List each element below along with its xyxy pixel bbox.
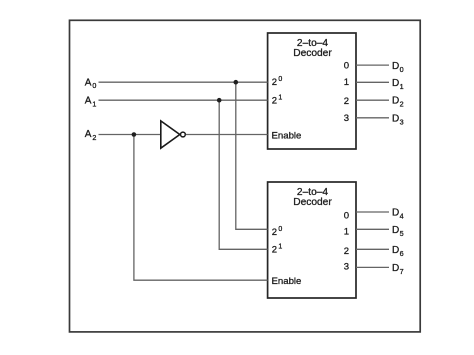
wire U2 pin2 to D6	[356, 248, 389, 250]
wire A0 branch to U2 2^0	[236, 82, 268, 229]
svg-text:2: 2	[344, 246, 349, 257]
svg-text:2: 2	[92, 133, 96, 142]
wire inverter output to U1 Enable	[186, 134, 268, 136]
svg-text:1: 1	[278, 244, 282, 251]
svg-text:0: 0	[92, 81, 96, 90]
svg-text:0: 0	[400, 65, 404, 74]
U2 pin label 2^0	[272, 226, 283, 238]
svg-text:D: D	[392, 96, 399, 107]
svg-text:2: 2	[272, 77, 277, 88]
wire A1 to U1 2^1	[99, 99, 268, 101]
wire U1 pin3 to D3	[356, 117, 389, 119]
svg-text:2: 2	[400, 100, 404, 109]
input label A1	[85, 95, 97, 108]
inverter gate	[161, 121, 186, 148]
output label D6	[392, 245, 404, 258]
U1 pin label 2^1	[272, 94, 283, 106]
svg-text:0: 0	[278, 76, 282, 83]
output label D3	[392, 113, 404, 126]
svg-text:Enable: Enable	[272, 276, 302, 287]
U1 pin label 2^0	[272, 76, 283, 88]
decoder U1 (top 2-to-4 decoder)	[268, 33, 356, 149]
svg-text:3: 3	[344, 113, 349, 124]
svg-text:0: 0	[344, 211, 349, 222]
wire A2 branch to U2 Enable	[134, 135, 268, 281]
svg-text:A: A	[85, 129, 92, 140]
U1 output pin numbers 0-3	[344, 61, 349, 125]
svg-text:3: 3	[344, 261, 349, 272]
svg-text:2: 2	[272, 95, 277, 106]
svg-text:D: D	[392, 225, 399, 236]
svg-text:3: 3	[400, 117, 404, 126]
svg-text:D: D	[392, 61, 399, 72]
svg-text:1: 1	[344, 227, 349, 238]
svg-text:Decoder: Decoder	[293, 197, 332, 208]
junction A0	[234, 80, 239, 85]
svg-text:D: D	[392, 245, 399, 256]
svg-text:4: 4	[400, 212, 404, 221]
output label D7	[392, 263, 404, 276]
svg-text:D: D	[392, 208, 399, 219]
svg-text:A: A	[85, 77, 92, 88]
U2 pin label 2^1	[272, 244, 283, 256]
svg-text:A: A	[85, 95, 92, 106]
svg-text:6: 6	[400, 249, 404, 258]
wire A1 branch to U2 2^1	[219, 100, 267, 249]
wire U1 pin1 to D1	[356, 81, 389, 83]
svg-text:1: 1	[344, 77, 349, 88]
output label D4	[392, 208, 404, 221]
junction A2	[132, 132, 137, 137]
svg-text:2: 2	[272, 227, 277, 238]
wire A0 to U1 2^0	[99, 81, 268, 83]
wire U2 pin3 to D7	[356, 266, 389, 268]
U2 output pin numbers 0-3	[344, 211, 349, 273]
svg-text:2: 2	[344, 96, 349, 107]
svg-text:1: 1	[92, 99, 96, 108]
svg-text:0: 0	[278, 226, 282, 233]
svg-text:0: 0	[344, 61, 349, 72]
wire U2 pin1 to D5	[356, 228, 389, 230]
svg-text:7: 7	[400, 267, 404, 276]
output label D2	[392, 96, 404, 109]
svg-text:1: 1	[278, 94, 282, 101]
svg-text:D: D	[392, 113, 399, 124]
svg-text:1: 1	[400, 82, 404, 91]
decoder U2 (bottom 2-to-4 decoder)	[268, 182, 356, 298]
wire U1 pin2 to D2	[356, 99, 389, 101]
input label A0	[85, 77, 97, 90]
U2 title	[293, 187, 332, 208]
svg-text:2: 2	[272, 245, 277, 256]
svg-text:Enable: Enable	[272, 131, 302, 142]
output label D0	[392, 61, 404, 74]
svg-text:D: D	[392, 263, 399, 274]
svg-text:5: 5	[400, 229, 404, 238]
wire A2 to inverter input	[99, 134, 161, 136]
U1 title	[293, 38, 332, 59]
junction A1	[217, 98, 222, 103]
svg-text:Decoder: Decoder	[293, 48, 332, 59]
input label A2	[85, 129, 97, 142]
output label D1	[392, 78, 404, 91]
svg-text:D: D	[392, 78, 399, 89]
wire U1 pin0 to D0	[356, 64, 389, 66]
output label D5	[392, 225, 404, 238]
wire U2 pin0 to D4	[356, 211, 389, 213]
